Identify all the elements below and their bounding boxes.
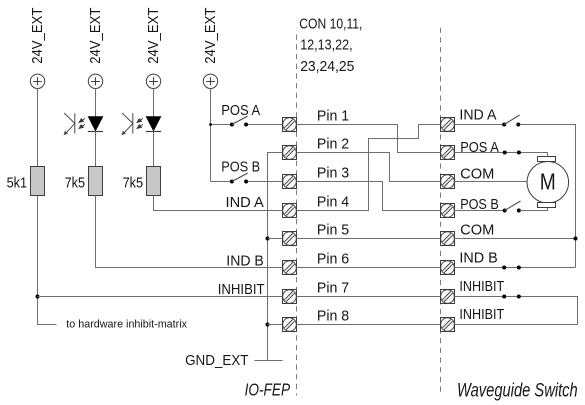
svg-text:7k5: 7k5 bbox=[123, 175, 144, 192]
wire POS A right to motor bbox=[455, 153, 548, 157]
Waveguide Switch boundary dashed line bbox=[440, 28, 442, 393]
wire COM 1 to motor bbox=[455, 181, 528, 183]
power terminal + rail 3 bbox=[146, 74, 160, 88]
wire Pin 8 stub bbox=[268, 324, 283, 326]
junction COM 2 bus bbox=[574, 237, 578, 241]
wire Pin 8 to INHIBIT right bbox=[297, 324, 441, 326]
ground GND_EXT bar bbox=[255, 360, 283, 362]
wire rail 2 resistor to IND B row bbox=[96, 196, 283, 268]
svg-text:24V_EXT: 24V_EXT bbox=[146, 7, 162, 63]
terminal waveguide switch row 2 bbox=[441, 146, 455, 160]
svg-text:POS B: POS B bbox=[221, 160, 260, 176]
wire INHIBIT 2 right bbox=[455, 324, 578, 326]
switch contact IND A left bbox=[502, 123, 506, 127]
wire POS A switch to Pin 1 bbox=[248, 124, 283, 126]
svg-text:23,24,25: 23,24,25 bbox=[300, 59, 354, 75]
svg-text:5k1: 5k1 bbox=[7, 175, 28, 192]
wire COM 2 to bus bbox=[455, 238, 576, 240]
svg-text:Pin 3: Pin 3 bbox=[317, 165, 349, 181]
switch contact IND B right bbox=[517, 266, 521, 270]
switch blade POS A bbox=[232, 116, 248, 124]
wire rail 3 LED to resistor bbox=[153, 132, 155, 167]
switch blade IND A bbox=[504, 115, 519, 125]
switch contact IND A right bbox=[516, 123, 520, 127]
wire COM bus left bbox=[268, 153, 283, 361]
svg-text:24V_EXT: 24V_EXT bbox=[30, 7, 46, 63]
svg-text:Pin 2: Pin 2 bbox=[317, 136, 349, 152]
svg-text:COM: COM bbox=[460, 167, 494, 183]
svg-text:12,13,22,: 12,13,22, bbox=[300, 38, 352, 54]
wire rail 2 top to LED bbox=[95, 89, 97, 117]
svg-text:POS A: POS A bbox=[460, 140, 499, 156]
wire Pin 1 to POS A right bbox=[297, 125, 441, 153]
IO-FEP boundary dashed line bbox=[296, 35, 298, 396]
wire POS A rail to switch bbox=[211, 124, 231, 126]
svg-text:INHIBIT: INHIBIT bbox=[459, 307, 504, 323]
resistor 5k1 bbox=[31, 167, 45, 196]
switch contact IND B left bbox=[502, 266, 506, 270]
wire IND A right to switch bbox=[455, 124, 504, 126]
motor M circle bbox=[527, 162, 569, 204]
svg-text:IND B: IND B bbox=[226, 253, 264, 269]
terminal waveguide switch row 4 bbox=[441, 204, 455, 218]
switch contact INHIBIT right bbox=[517, 295, 521, 299]
wire Pin 5 stub bbox=[268, 238, 283, 240]
wire POS B right to switch bbox=[455, 210, 504, 212]
svg-text:Pin 8: Pin 8 bbox=[317, 308, 349, 324]
svg-text:INHIBIT: INHIBIT bbox=[218, 282, 265, 298]
photodetector symbol rail 2 bbox=[79, 118, 85, 128]
svg-text:CON 10,11,: CON 10,11, bbox=[299, 16, 362, 32]
wire Pin 2 to COM right bbox=[297, 153, 441, 182]
svg-text:Pin 6: Pin 6 bbox=[317, 251, 349, 267]
switch contact POS A right-side right bbox=[517, 151, 521, 155]
wire rail 1 top to resistor bbox=[37, 89, 39, 167]
svg-text:IND B: IND B bbox=[459, 251, 497, 267]
svg-text:Pin 1: Pin 1 bbox=[317, 108, 349, 124]
wire IND A switch to bus bbox=[520, 125, 576, 268]
photodetector symbol rail 3 bbox=[122, 113, 133, 135]
switch contact POS B right bbox=[244, 180, 248, 184]
svg-text:INHIBIT: INHIBIT bbox=[459, 279, 504, 295]
wire Pin 4 to IND A right bbox=[297, 125, 441, 211]
svg-text:IND A: IND A bbox=[226, 195, 265, 211]
terminal CON pin 7 bbox=[283, 290, 297, 304]
svg-text:IO-FEP: IO-FEP bbox=[245, 380, 291, 400]
switch contact POS B right-side right bbox=[517, 209, 521, 213]
svg-text:Pin 4: Pin 4 bbox=[317, 194, 349, 210]
junction rail 1 INHIBIT bbox=[36, 295, 40, 299]
wire Pin 6 to IND B right bbox=[297, 267, 441, 269]
wire rail 3 resistor to IND A row bbox=[154, 196, 283, 211]
svg-text:Waveguide Switch: Waveguide Switch bbox=[457, 380, 578, 401]
terminal waveguide switch row 6 bbox=[441, 261, 455, 275]
switch blade POS B bbox=[232, 173, 248, 181]
svg-text:POS A: POS A bbox=[221, 103, 260, 119]
terminal CON pin 5 bbox=[283, 232, 297, 246]
power terminal + rail 1 bbox=[30, 74, 44, 88]
junction rail 4 POS A tee bbox=[209, 123, 212, 126]
wire rail 1 resistor to inhibit elbow bbox=[38, 196, 57, 325]
switch contact INHIBIT left bbox=[502, 295, 506, 299]
terminal waveguide switch row 3 bbox=[441, 175, 455, 189]
resistor 7k5 rail 2 bbox=[89, 167, 103, 196]
switch contact POS A left bbox=[230, 123, 234, 127]
wire rail 4 vertical bbox=[210, 89, 212, 182]
wire IND B right bbox=[455, 267, 576, 269]
LED indicator rail 2 bbox=[88, 117, 103, 132]
switch contact POS B right-side left bbox=[503, 209, 507, 213]
svg-text:7k5: 7k5 bbox=[65, 175, 86, 192]
power terminal + rail 2 bbox=[88, 74, 102, 88]
svg-text:Pin 7: Pin 7 bbox=[317, 280, 349, 296]
LED indicator rail 3 bbox=[146, 117, 161, 132]
svg-text:IND A: IND A bbox=[459, 108, 496, 124]
wire POS B switch to Pin 3 bbox=[248, 181, 283, 183]
svg-text:24V_EXT: 24V_EXT bbox=[88, 7, 104, 63]
svg-text:M: M bbox=[540, 168, 556, 194]
wire Pin 3 to POS B right bbox=[297, 182, 441, 211]
terminal CON pin 3 bbox=[283, 175, 297, 189]
svg-text:COM: COM bbox=[460, 223, 494, 239]
terminal CON pin 2 bbox=[283, 146, 297, 160]
switch contact POS A right-side left bbox=[503, 151, 507, 155]
switch contact POS B left bbox=[230, 180, 234, 184]
svg-text:Pin 5: Pin 5 bbox=[317, 222, 349, 238]
terminal waveguide switch row 1 bbox=[441, 118, 455, 132]
terminal waveguide switch row 8 bbox=[441, 318, 455, 332]
junction COM bus Pin 8 bbox=[266, 323, 270, 327]
svg-text:to hardware inhibit-matrix: to hardware inhibit-matrix bbox=[66, 319, 187, 331]
terminal CON pin 4 bbox=[283, 204, 297, 218]
power terminal + rail 4 bbox=[203, 74, 217, 88]
switch contact POS A right bbox=[244, 123, 248, 127]
terminal CON pin 1 bbox=[283, 118, 297, 132]
junction COM bus Pin 5 bbox=[266, 237, 270, 241]
resistor 7k5 rail 3 bbox=[147, 167, 161, 196]
svg-text:24V_EXT: 24V_EXT bbox=[203, 7, 219, 63]
photodetector symbol rail 2 bbox=[64, 113, 75, 135]
photodetector symbol rail 3 bbox=[137, 118, 143, 128]
terminal CON pin 6 bbox=[283, 261, 297, 275]
wire INHIBIT row bbox=[38, 296, 283, 298]
motor M top terminal box bbox=[538, 157, 556, 162]
wire Pin 5 to COM right bbox=[297, 238, 441, 240]
wire INHIBIT 1 right bbox=[455, 297, 578, 325]
terminal waveguide switch row 5 bbox=[441, 232, 455, 246]
wire POS B switch to motor bbox=[520, 208, 548, 211]
wire rail 3 top to LED bbox=[153, 89, 155, 117]
svg-text:GND_EXT: GND_EXT bbox=[185, 353, 249, 369]
switch blade POS B right bbox=[505, 201, 521, 211]
terminal waveguide switch row 7 bbox=[441, 290, 455, 304]
wire Pin 7 to INHIBIT right bbox=[297, 296, 441, 298]
motor M bottom terminal box bbox=[538, 203, 556, 208]
svg-text:POS B: POS B bbox=[460, 197, 499, 213]
terminal CON pin 8 bbox=[283, 318, 297, 332]
wire POS B rail to switch bbox=[211, 181, 231, 183]
wire rail 2 LED to resistor bbox=[95, 132, 97, 167]
